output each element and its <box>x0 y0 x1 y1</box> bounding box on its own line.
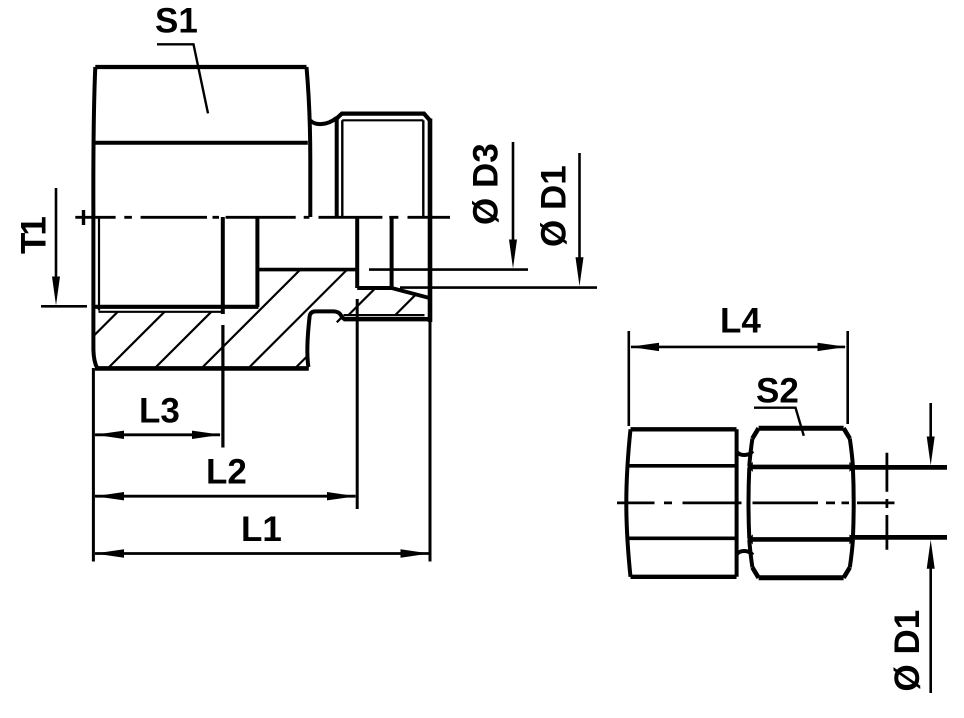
stud thread start thin vertical <box>341 120 343 217</box>
svg-text:L1: L1 <box>241 510 282 549</box>
centerline end tick <box>82 210 85 225</box>
L2 right arrowhead <box>327 492 356 500</box>
svg-text:L3: L3 <box>139 392 180 431</box>
stud right edge + L1 extension line <box>428 119 433 323</box>
stud nose chamfer <box>392 288 430 298</box>
S1 leader <box>157 44 208 113</box>
S2 hex corner chamfers <box>752 428 758 438</box>
stud thread root (bottom section) <box>337 315 425 322</box>
hex bottom edge (section silhouette) <box>95 366 309 371</box>
svg-text:S1: S1 <box>155 2 198 41</box>
big hex left edge <box>626 429 630 577</box>
S2 leader <box>754 408 804 436</box>
L2 extension line <box>356 299 359 509</box>
S2 hex bottom edge <box>759 575 844 580</box>
hatch line 1 <box>93 312 117 336</box>
hatch line 3 <box>155 312 211 368</box>
part edge at L2 <box>355 217 359 288</box>
right D1 lower arrow line <box>929 568 932 693</box>
D3 arrowhead <box>509 240 517 269</box>
hatch line 4 <box>202 270 300 368</box>
centerline right view <box>617 501 895 504</box>
S2 hex flat line lower <box>749 537 853 542</box>
L4 right extension line <box>846 331 849 424</box>
L1 dimension line <box>95 552 429 555</box>
T1 arrowhead <box>52 277 60 306</box>
D1 arrow line <box>578 153 581 258</box>
big hex flat line upper <box>628 464 737 468</box>
neck between hex and stud <box>310 118 336 124</box>
L4 right arrowhead <box>818 343 847 351</box>
hatch line 7 <box>395 294 416 315</box>
tube end dashed vertical <box>886 453 889 550</box>
L3 left arrowhead <box>95 431 124 439</box>
L4 left arrowhead <box>630 343 659 351</box>
stud nose vertical <box>390 217 394 288</box>
S2 hex flat line upper <box>749 465 853 470</box>
big hex flat line lower <box>628 536 737 540</box>
big hex bottom edge <box>631 575 737 579</box>
female thread major dia (thin) <box>99 311 223 313</box>
L4 dimension line <box>631 346 845 349</box>
stud thread root line (top half) <box>342 119 423 121</box>
female thread minor dia (thick) <box>93 305 258 309</box>
D1 arrowhead <box>576 257 584 286</box>
hex left edge <box>93 67 97 368</box>
S2 hex right edge arcs <box>850 439 853 467</box>
female thread chamfer thin vertical <box>98 217 100 311</box>
svg-text:T1: T1 <box>15 217 54 254</box>
left face extension line <box>92 368 95 562</box>
svg-text:L2: L2 <box>206 453 247 492</box>
right D1 lower arrowhead <box>927 540 935 569</box>
svg-text:S2: S2 <box>756 372 799 411</box>
L3 right arrowhead <box>192 431 221 439</box>
right D1 upper arrowhead <box>927 437 935 466</box>
D3 leader line <box>369 268 528 271</box>
female bore end vertical <box>255 217 259 307</box>
L4 left extension line <box>627 331 630 426</box>
L3 extension line <box>221 325 224 448</box>
female thread end vertical <box>221 217 225 314</box>
L2 dimension line <box>95 495 356 498</box>
stud thread end thin vertical <box>422 120 424 217</box>
hex flat line <box>95 141 308 145</box>
centerline left view <box>75 216 450 219</box>
L2 left arrowhead <box>95 492 124 500</box>
T1 dimension line <box>55 188 58 278</box>
stud thread crest with chamfers (top half) <box>337 114 430 121</box>
threaded stub top line <box>850 465 947 470</box>
svg-text:Ø D1: Ø D1 <box>535 165 574 247</box>
stud thread start thick vertical <box>335 118 339 218</box>
hatch line 5 <box>249 270 348 368</box>
hatch line 2 <box>108 312 164 368</box>
S2 hex top edge <box>759 426 844 431</box>
stud nose horizontal <box>357 286 391 290</box>
threaded stub bottom line <box>850 535 947 540</box>
neck top <box>737 451 753 455</box>
hex body top edge <box>95 65 306 69</box>
big hex top edge <box>631 427 737 431</box>
T1 extension line <box>41 305 87 308</box>
D3 arrow line <box>512 142 515 240</box>
D3 bore wall <box>258 268 357 272</box>
hex right edge <box>307 67 311 217</box>
L1 right arrowhead <box>401 549 430 557</box>
right D1 upper arrow line <box>929 403 932 438</box>
svg-text:L4: L4 <box>720 302 761 341</box>
S2 hex beak points <box>747 462 854 545</box>
L3 dimension line <box>95 433 220 436</box>
svg-text:Ø D3: Ø D3 <box>467 143 506 225</box>
hatch line 6 <box>295 288 375 368</box>
svg-text:Ø D1: Ø D1 <box>888 610 927 692</box>
big hex right edge <box>735 429 739 577</box>
stud thread crest (bottom section) <box>344 317 431 321</box>
undercut groove outline <box>307 311 345 367</box>
L1 left arrowhead <box>95 549 124 557</box>
neck bottom <box>737 551 753 555</box>
S2 hex left edge arcs <box>749 439 752 467</box>
D1 leader line <box>400 286 597 289</box>
